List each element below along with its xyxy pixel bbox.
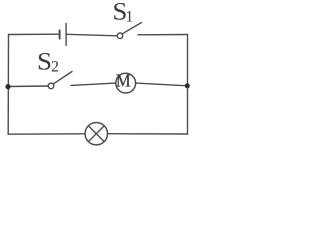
svg-text:1: 1 — [125, 9, 133, 26]
svg-text:M: M — [116, 71, 131, 91]
svg-text:S: S — [37, 49, 52, 76]
svg-text:2: 2 — [51, 59, 59, 76]
